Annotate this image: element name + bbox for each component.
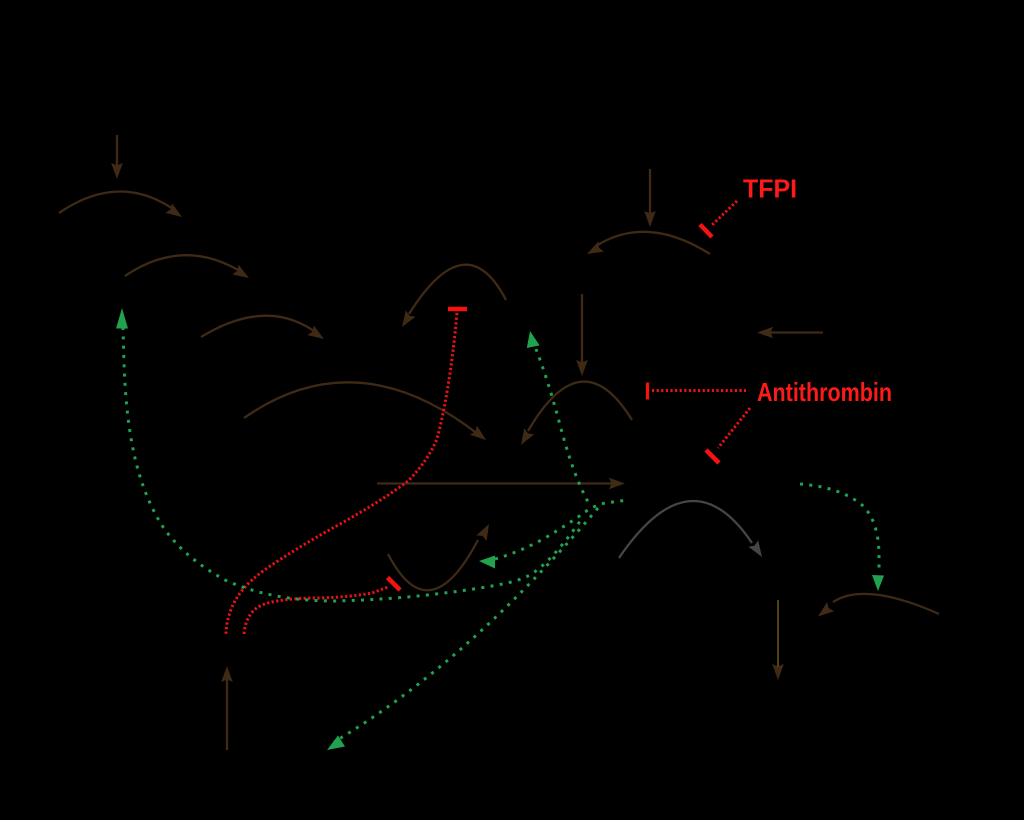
- wire: Xa + Va prothrombinase long horizontal arrow: [377, 482, 612, 484]
- arrowhead: Va: [476, 521, 494, 541]
- wire: thrombin activates protein C (long diagonal): [334, 508, 598, 742]
- arc fibrinogen -> fibrin (arrow to left): [833, 594, 939, 614]
- arc XII -> XIIa: [59, 191, 176, 213]
- T-bar: antithrombin blocks IXa: [646, 383, 649, 400]
- arrowhead: IXa: [307, 325, 327, 343]
- arrowhead: X->Xa extrinsic: [516, 428, 534, 448]
- arrowhead: TF-VIIa down: [576, 360, 588, 376]
- T-bar: antithrombin blocks thrombin: [706, 450, 719, 463]
- arc prothrombin II -> thrombin IIa (grey): [619, 501, 752, 558]
- arc X -> Xa (extrinsic tenase, arrow to lower-left): [528, 382, 632, 431]
- arc IXa+VIIIa long curve to X->Xa: [244, 382, 479, 435]
- wire: TF-VIIa complex arrow down to X: [581, 294, 583, 367]
- wire: APC inactivates VIIIa (long red curve): [226, 313, 457, 634]
- arrowhead: to XI: [116, 308, 128, 329]
- arrowhead: cross-linked fibrin clot: [772, 664, 784, 680]
- arc V -> Va (u-shaped, arrow up-right): [388, 540, 478, 590]
- svg-text:TFPI: TFPI: [743, 174, 797, 204]
- arc XI -> XIa: [125, 255, 243, 276]
- arrowhead: to VIII: [527, 331, 540, 348]
- wire: trauma arrow down to TF/VII: [649, 169, 651, 218]
- arc IX -> IXa: [201, 316, 318, 337]
- wire: thrombin activates XI (big left curve): [123, 327, 583, 601]
- arrowhead: VIIa: [584, 241, 604, 259]
- T-bar: APC blocks Va: [388, 578, 401, 591]
- wire: antithrombin to thrombin dashes: [718, 408, 750, 448]
- brown arrowheads: [111, 163, 834, 680]
- arrowhead: to V: [479, 556, 495, 569]
- arrowhead: fibrin: [814, 602, 834, 621]
- arrowhead: X->Xa intrinsic: [397, 310, 415, 330]
- arrowhead: tenase to Xa: [470, 426, 490, 445]
- wire: antithrombin to IXa dashes: [652, 389, 746, 392]
- wire: contact activation arrow down to XII: [116, 135, 118, 171]
- wire: VIIa arrow from right pointing left: [767, 331, 823, 333]
- wire: thrombin activates V: [495, 500, 628, 559]
- green positive feedback: [123, 327, 879, 742]
- arrowhead: to XIII: [872, 575, 884, 591]
- arc VII -> VIIa (arrow to left): [596, 232, 710, 254]
- T-bar: APC blocks VIIIa: [448, 307, 467, 312]
- wire: fibrin down to cross-linked clot (olive shaft): [777, 600, 779, 667]
- T-bar: TFPI blocks TF-VIIa: [700, 225, 712, 238]
- arrowhead: contact activation: [111, 163, 123, 179]
- arrowhead: prothrombinase horizontal: [609, 478, 625, 490]
- arrowhead: XIIa: [165, 203, 185, 222]
- arc X -> Xa (intrinsic tenase, arrow to lower-left): [409, 265, 506, 314]
- wire: protein C supply arrow up: [226, 673, 228, 750]
- wire: TFPI inhibition dashes: [712, 201, 737, 225]
- red inhibitors: [226, 201, 750, 634]
- arrowhead: to protein C: [327, 736, 345, 751]
- arrowhead: VIIa left arrow: [757, 327, 773, 339]
- arrowhead: XIa: [232, 265, 252, 283]
- wire: APC inactivates Va (red curve to T): [244, 587, 388, 634]
- arrowhead: trauma: [644, 211, 656, 227]
- svg-text:Antithrombin: Antithrombin: [757, 377, 892, 407]
- wire: thrombin activates VIII: [536, 349, 588, 502]
- wire: thrombin activates XIII: [800, 484, 879, 571]
